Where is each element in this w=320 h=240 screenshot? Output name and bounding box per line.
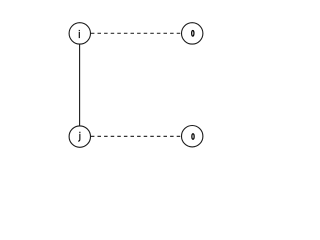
node j: [69, 126, 90, 147]
node 0 (bottom right): [182, 126, 203, 147]
node i: [69, 23, 90, 44]
node 0 (top right): [182, 23, 203, 44]
wire: solid edge i-j: [79, 44, 81, 126]
wire: dashed edge j-0 (bottom): [91, 135, 181, 137]
wire: dashed edge i-0 (top): [91, 32, 181, 34]
